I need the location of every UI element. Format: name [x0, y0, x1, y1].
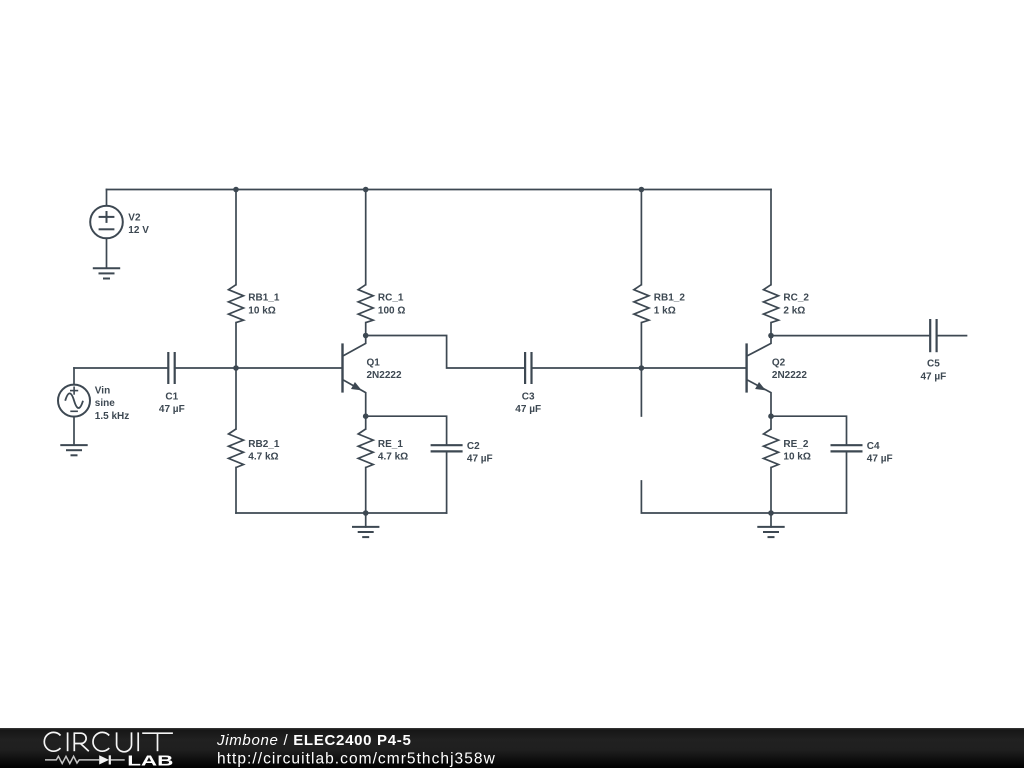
svg-text:RB1_2: RB1_2 [654, 293, 686, 304]
svg-text:RC_2: RC_2 [783, 293, 809, 304]
svg-text:RE_2: RE_2 [783, 439, 808, 450]
svg-text:100 Ω: 100 Ω [378, 305, 405, 316]
svg-text:RE_1: RE_1 [378, 439, 403, 450]
svg-text:2 kΩ: 2 kΩ [783, 305, 805, 316]
svg-text:47 µF: 47 µF [515, 404, 541, 415]
svg-text:C1: C1 [165, 391, 178, 402]
svg-text:Jimbone / ELEC2400 P4-5: Jimbone / ELEC2400 P4-5 [216, 732, 412, 749]
svg-text:V2: V2 [128, 212, 141, 223]
svg-text:10 kΩ: 10 kΩ [783, 452, 810, 463]
svg-text:4.7 kΩ: 4.7 kΩ [248, 452, 278, 463]
svg-text:12 V: 12 V [128, 225, 149, 236]
svg-text:RB1_1: RB1_1 [248, 293, 280, 304]
svg-text:Vin: Vin [95, 385, 110, 396]
svg-text:47 µF: 47 µF [921, 371, 947, 382]
svg-text:sine: sine [95, 398, 115, 409]
svg-text:47 µF: 47 µF [867, 454, 893, 465]
svg-text:RC_1: RC_1 [378, 293, 404, 304]
svg-text:RB2_1: RB2_1 [248, 439, 280, 450]
svg-text:2N2222: 2N2222 [367, 370, 402, 381]
svg-text:47 µF: 47 µF [159, 404, 185, 415]
svg-text:10 kΩ: 10 kΩ [248, 305, 275, 316]
svg-text:C2: C2 [467, 441, 480, 452]
svg-text:Q2: Q2 [772, 357, 786, 368]
svg-text:LAB: LAB [127, 753, 173, 768]
svg-text:C4: C4 [867, 441, 880, 452]
svg-text:http://circuitlab.com/cmr5thch: http://circuitlab.com/cmr5thchj358w [217, 750, 496, 767]
svg-text:2N2222: 2N2222 [772, 370, 807, 381]
svg-text:1.5 kHz: 1.5 kHz [95, 411, 129, 422]
svg-text:Q1: Q1 [367, 357, 381, 368]
svg-text:1 kΩ: 1 kΩ [654, 305, 676, 316]
svg-text:C5: C5 [927, 359, 940, 370]
svg-text:4.7 kΩ: 4.7 kΩ [378, 452, 408, 463]
svg-text:C3: C3 [522, 391, 535, 402]
svg-text:47 µF: 47 µF [467, 454, 493, 465]
